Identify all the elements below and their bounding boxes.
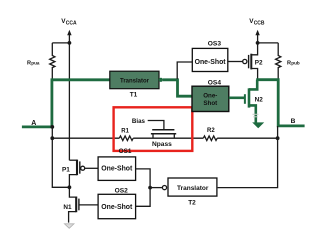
svg-text:pub: pub xyxy=(291,60,300,65)
svg-text:Bias: Bias xyxy=(132,118,146,125)
ground (B side, gray marks) xyxy=(253,114,259,117)
svg-text:Translator: Translator xyxy=(120,78,150,84)
wire T2 to B line xyxy=(218,126,278,188)
svg-text:T2: T2 xyxy=(188,200,196,207)
node B junction xyxy=(276,136,280,140)
wire T1 to OS4 (green) xyxy=(163,80,192,96)
transistor P2 xyxy=(249,43,263,80)
P2 gate bubble xyxy=(243,59,247,63)
node main line left xyxy=(50,136,54,140)
svg-text:One-: One- xyxy=(203,92,217,99)
one-shot OS1 xyxy=(98,157,136,181)
translator T1 xyxy=(110,71,159,99)
wire main line middle segment xyxy=(133,137,203,139)
wire main A-B line left segment xyxy=(52,137,119,139)
svg-text:Npass: Npass xyxy=(152,141,172,148)
node VCCB junction xyxy=(256,41,260,45)
wire main line right segment xyxy=(217,137,277,139)
svg-text:CCB: CCB xyxy=(254,21,265,27)
one-shot OS2 xyxy=(98,188,136,219)
wire B rail (green) xyxy=(256,80,304,126)
resistor Rpua xyxy=(27,43,55,80)
transistor N1 xyxy=(63,187,98,222)
wire A line down to drain node xyxy=(52,138,69,187)
svg-text:Shot: Shot xyxy=(203,100,217,107)
wire branch to OS3 xyxy=(177,62,192,79)
wire OS1 output to T2 xyxy=(136,169,151,188)
transistor Npass xyxy=(132,118,176,148)
resistor R1 xyxy=(119,129,133,141)
svg-text:OS3: OS3 xyxy=(208,40,222,47)
svg-text:One-Shot: One-Shot xyxy=(101,204,133,211)
power VCCA xyxy=(61,18,77,43)
svg-text:OS4: OS4 xyxy=(208,79,222,86)
one-shot OS3 xyxy=(192,40,228,71)
wire OS3 to P2 gate xyxy=(228,61,243,63)
svg-text:pua: pua xyxy=(31,60,40,65)
power VCCB xyxy=(249,18,265,43)
ground (B side, green arrow) xyxy=(252,122,264,128)
svg-text:One-Shot: One-Shot xyxy=(101,166,133,173)
resistor Rpub xyxy=(276,43,300,80)
T2 input bubble xyxy=(162,186,166,190)
svg-text:N2: N2 xyxy=(255,96,264,103)
svg-text:Translator: Translator xyxy=(177,185,209,192)
wire junction to T2 bubble xyxy=(150,187,162,189)
wire A to T1 (green path) xyxy=(22,80,110,127)
ground (A side, gray) xyxy=(64,224,74,229)
node VCCA junction xyxy=(68,41,72,45)
one-shot OS4 xyxy=(192,79,229,111)
wire VCCB junction to Rpub xyxy=(258,42,279,44)
svg-text:P2: P2 xyxy=(255,59,263,66)
wire OS2 output to T2 xyxy=(136,188,151,207)
red highlight box xyxy=(114,107,193,151)
resistor R2 xyxy=(203,128,217,140)
svg-text:OS2: OS2 xyxy=(115,188,129,195)
svg-text:CCA: CCA xyxy=(66,21,77,27)
transistor P1 xyxy=(62,160,98,188)
node P1/N1 drain junction xyxy=(68,185,72,189)
node A junction xyxy=(50,125,54,129)
node one-shot outputs junction xyxy=(148,186,152,190)
svg-text:P1: P1 xyxy=(62,167,70,174)
svg-text:T1: T1 xyxy=(130,92,138,99)
svg-text:R1: R1 xyxy=(121,129,129,135)
wire VCCA junction to Rpua xyxy=(52,42,69,44)
svg-text:B: B xyxy=(291,118,296,125)
translator T2 xyxy=(168,178,217,207)
svg-text:One-Shot: One-Shot xyxy=(195,59,227,66)
wire A junction down to main line xyxy=(51,127,53,138)
T1 output bubble (green) xyxy=(159,78,163,82)
transistor N2 (green) xyxy=(229,80,263,123)
wire VCCA rail down to P1 source xyxy=(68,43,70,160)
svg-text:OS1: OS1 xyxy=(119,148,132,155)
svg-text:R2: R2 xyxy=(207,128,215,134)
svg-text:N1: N1 xyxy=(63,204,72,211)
